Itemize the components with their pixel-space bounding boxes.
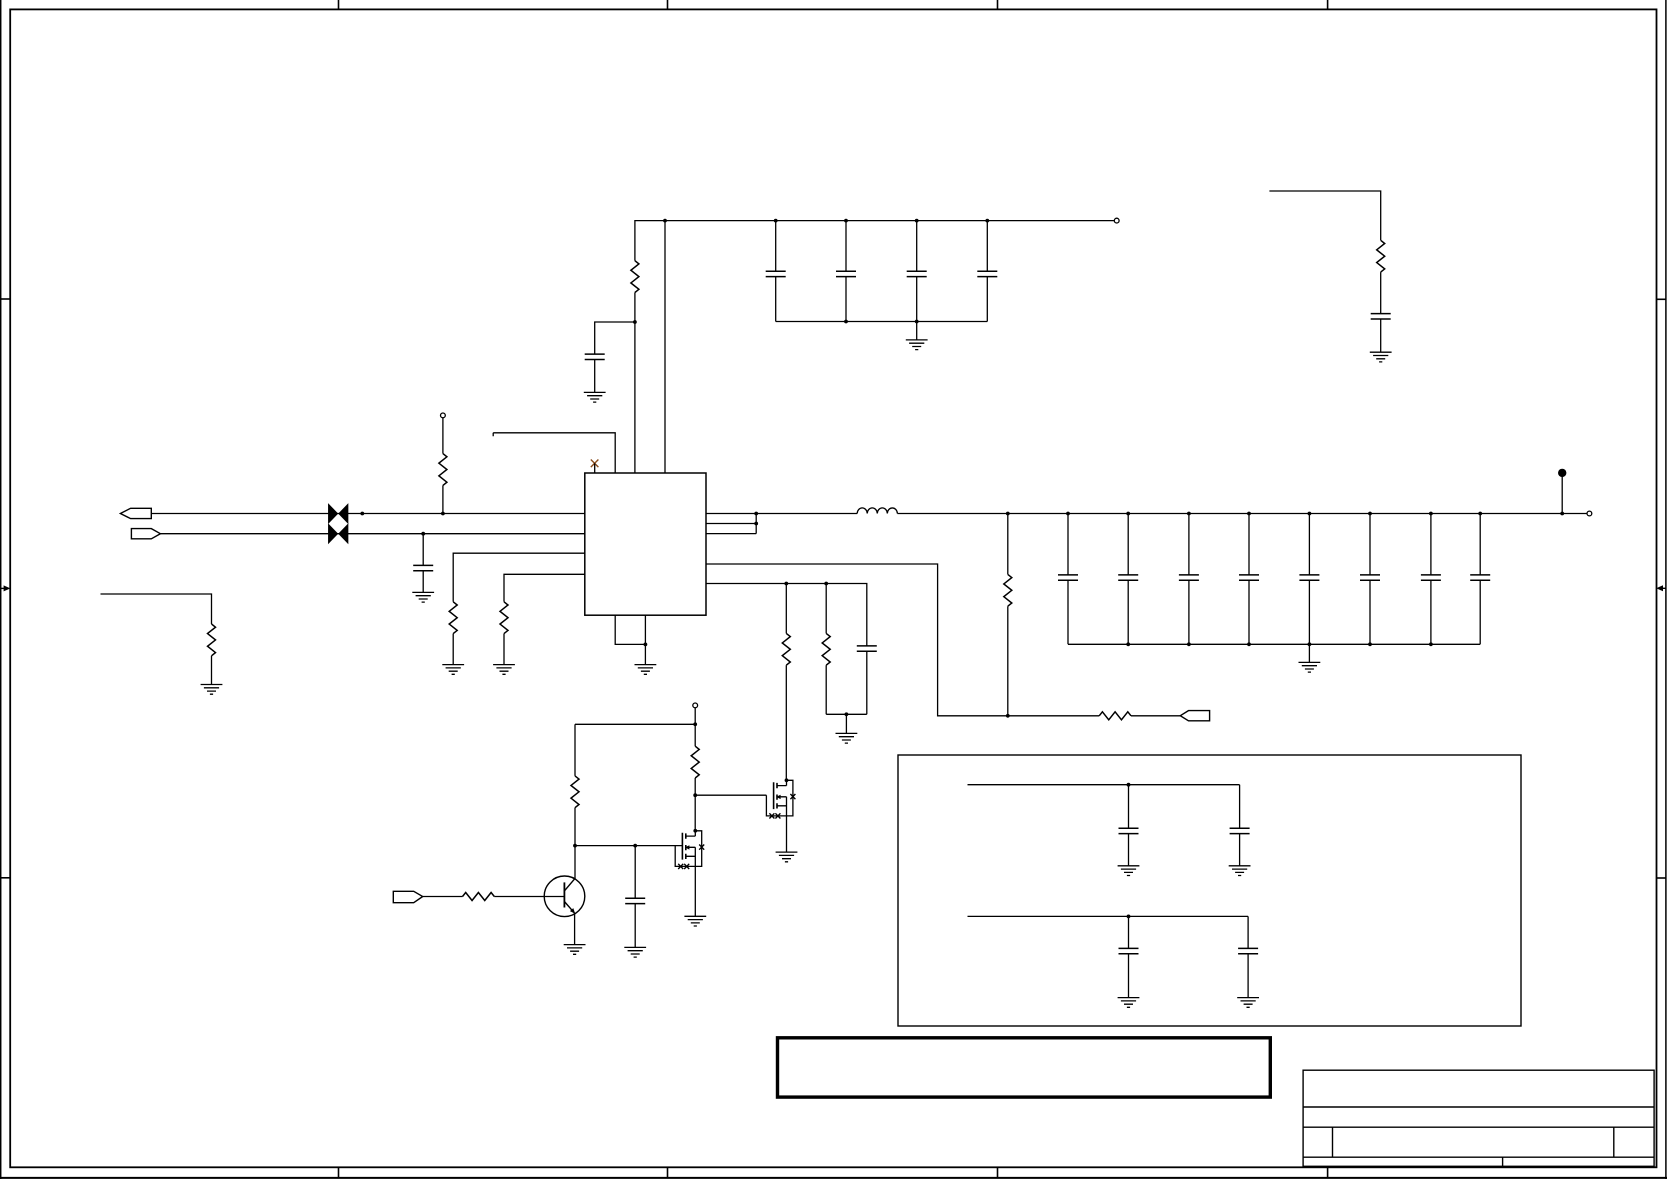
title block [1303, 1070, 1654, 1166]
capacitor C5 [585, 354, 605, 359]
wire M2 source to ground [786, 816, 788, 852]
capacitor C12 [1299, 575, 1319, 580]
wire R2 to C6 [1380, 272, 1382, 314]
ground under M2 [776, 852, 798, 862]
ground under C17 [624, 947, 646, 957]
wire C15 stub [1479, 514, 1481, 645]
wire C21 stub [1247, 916, 1249, 997]
capacitor C13 [1360, 575, 1380, 580]
zone tick right 1 [1657, 298, 1666, 300]
ground under C5 [584, 392, 606, 402]
zone tick top 1 [338, 0, 340, 9]
transistor M1 (NMOS) [675, 829, 704, 869]
centre arrow left edge [1, 585, 11, 591]
testpoint filled circle [1558, 469, 1566, 477]
wire ground stub [916, 322, 918, 340]
wire R5 to ground [503, 634, 505, 665]
wire resistor R1 bottom to junction and on to IC [634, 293, 636, 474]
wire C20 to ground [1128, 954, 1130, 998]
sheet outer border right edge [1665, 0, 1667, 1179]
transistor M2 (NMOS) [766, 778, 795, 818]
wire collector node to M1 gate [575, 845, 682, 847]
capacitor C17 [625, 898, 645, 903]
junction dot IC bottom [644, 643, 648, 647]
resistor R3 [439, 454, 447, 486]
inductor L1 [857, 508, 897, 514]
wire C14 stub [1430, 514, 1432, 645]
resistor R9 [822, 633, 830, 665]
wire flag to R12 [423, 896, 463, 898]
wire C12 stub [1308, 514, 1310, 645]
wire gate node to M2 gate [695, 794, 766, 796]
wire top right stub [1269, 191, 1380, 240]
wire IC pin y=574 [504, 574, 585, 602]
zone tick right 2 [1657, 877, 1666, 879]
wire to R8 [785, 584, 787, 634]
wire ground stub [845, 714, 847, 733]
resistor R5 [500, 602, 508, 634]
IC U1 body [585, 473, 706, 615]
capacitor C21 [1238, 948, 1258, 953]
resistor R13 [208, 624, 216, 656]
zone tick left 1 [0, 298, 10, 300]
resistor R12 [463, 893, 495, 901]
wire C3 stub [916, 221, 918, 322]
capacitor C11 [1239, 575, 1259, 580]
capacitor C14 [1421, 575, 1441, 580]
zone tick top 2 [667, 0, 669, 9]
junction dot bottom rail [845, 712, 849, 716]
ground under R9/C16 [836, 733, 858, 743]
ground under R4 [442, 665, 464, 675]
wire C10 stub [1188, 514, 1190, 645]
wire R4 to ground [452, 634, 454, 665]
wire M1 source to ground [694, 866, 696, 916]
capacitor C16 [857, 646, 877, 651]
ground under C7 [412, 592, 434, 602]
wire C11 stub [1248, 514, 1250, 645]
zone tick top 3 [997, 0, 999, 9]
wire R12 to base [494, 896, 564, 898]
wire C1 stub [775, 221, 777, 322]
terminal open circle top bus [1114, 218, 1119, 223]
ground under R13 [201, 685, 223, 695]
capacitor C4 [977, 271, 997, 276]
label block thick rectangle [778, 1038, 1271, 1097]
wire detail bottom net [968, 915, 1249, 917]
wire lower left net [101, 594, 212, 624]
capacitor C10 [1179, 575, 1199, 580]
capacitor C6 [1371, 314, 1391, 319]
junction dot detail top [1127, 783, 1131, 787]
connector flag feedback (points left) [1180, 711, 1209, 721]
EMI bowtie upper [328, 503, 348, 524]
junction dots on top bus [663, 219, 989, 223]
ground under capacitor bank [1299, 662, 1321, 672]
resistor R8 [782, 633, 790, 665]
wire gate node to M1 drain [694, 795, 696, 831]
wire junction branch to C5 [595, 322, 635, 354]
capacitor C15 [1470, 575, 1490, 580]
EMI bowtie lower [328, 523, 348, 544]
junction dots bank bottom rail [1126, 642, 1433, 646]
zone tick left 2 [0, 877, 10, 879]
wire C13 stub [1369, 514, 1371, 645]
wire C5 bottom to ground [594, 360, 596, 393]
wire C4 stub [986, 221, 988, 322]
zone tick bottom 2 [667, 1167, 669, 1178]
wire bank ground stub [1308, 644, 1310, 662]
wire C7 branch [422, 534, 424, 566]
terminal open circle above R3 [441, 413, 446, 418]
wire C2 stub [845, 221, 847, 322]
wire NC stub to IC top [594, 463, 596, 473]
ground under C18 [1118, 866, 1140, 876]
wire R13 to ground [211, 656, 213, 685]
junction dots tie point [754, 512, 758, 526]
connector flag input (points right) [393, 891, 422, 902]
wire R6 to feedback line [1007, 606, 1009, 716]
ground top rail [906, 340, 928, 350]
resistor R10 [571, 776, 579, 808]
wire terminal to R3 [442, 418, 444, 454]
zone tick bottom 1 [338, 1167, 340, 1178]
capacitor C3 [907, 271, 927, 276]
ground under C21 [1237, 998, 1259, 1008]
resistor R7 [1099, 712, 1131, 720]
wire C18 stub [1128, 785, 1130, 829]
wire R8 to M2 drain [785, 665, 787, 780]
wire main bus right section [897, 513, 1587, 515]
wire second line left of IC [160, 533, 584, 535]
wire R9/C16 bottom rail [826, 713, 867, 715]
wire R3 to bus [442, 485, 444, 513]
junction dot R3 branch [441, 512, 445, 516]
junction dot feedback line [1006, 714, 1010, 718]
wire C17 to ground [634, 904, 636, 948]
capacitor C2 [836, 271, 856, 276]
zone tick bottom 3 [997, 1167, 999, 1178]
wire IC bottom pins jog [615, 615, 645, 664]
wire R9 bottom [825, 665, 827, 714]
wire C7 to ground [422, 571, 424, 593]
wire IC pin y=583 [706, 584, 867, 646]
wire to R11 [694, 724, 696, 746]
resistor R4 [449, 602, 457, 634]
resistor R6 [1004, 574, 1012, 606]
centre arrow right edge [1656, 585, 1666, 591]
resistor R2 [1377, 240, 1385, 272]
wire detail top net [968, 784, 1240, 786]
junction dot supply rail [693, 722, 697, 726]
wire top supply bus [635, 221, 1114, 261]
capacitor C1 [766, 271, 786, 276]
wire C20 stub [1128, 916, 1130, 948]
wire C8 stub [1067, 514, 1069, 645]
junction dot C7 branch [421, 532, 425, 536]
capacitor C7 [413, 565, 433, 570]
junction dot collector node [573, 844, 577, 848]
wire terminal stub [694, 708, 696, 725]
capacitor C9 [1118, 575, 1138, 580]
wire R10 to collector [574, 808, 576, 879]
terminal open circle bus right end [1587, 511, 1592, 516]
resistor R11 [691, 746, 699, 778]
wire to R10 [574, 724, 576, 776]
wire C9 stub [1127, 514, 1129, 645]
wire main bus left of IC [151, 513, 585, 515]
wire IC pin y=564 feedback loop [706, 564, 1099, 716]
wire bus to inductor [756, 513, 857, 515]
wire emitter to ground [574, 913, 576, 945]
junction dot after bowtie [360, 512, 364, 516]
ground under C6 [1370, 352, 1392, 362]
zone tick bottom 4 [1327, 1167, 1329, 1178]
zone tick top 4 [1327, 0, 1329, 9]
wire capacitor bottom rail [776, 321, 988, 323]
ground under IC [635, 665, 657, 675]
junction dots on 583 line [784, 582, 828, 586]
wire R7 to flag [1131, 715, 1180, 717]
capacitor C18 [1119, 828, 1139, 833]
wire IC right pins to tie point [706, 514, 756, 534]
sheet outer border bottom edge [0, 1177, 1667, 1179]
wire testpoint stub [1561, 477, 1563, 514]
wire capacitor bank bottom rail [1068, 643, 1480, 645]
wire R11 to gate node [694, 778, 696, 795]
resistor R1 [631, 261, 639, 293]
junction dot R1/C5 branch [633, 320, 637, 324]
connector flag lower (points right) [131, 529, 160, 539]
wire bus to R6 [1007, 514, 1009, 575]
capacitor C8 [1058, 575, 1078, 580]
terminal open circle driver supply [693, 703, 698, 708]
capacitor C19 [1230, 828, 1250, 833]
decoupling detail box [898, 755, 1521, 1026]
wire C18 to ground [1128, 834, 1130, 866]
ground under M1 [684, 916, 706, 926]
wire C19 stub [1239, 785, 1241, 866]
junction dots on right bus [1006, 512, 1564, 516]
junction dot detail bottom [1127, 915, 1131, 919]
junction dot C17 branch [633, 844, 637, 848]
capacitor C20 [1119, 948, 1139, 953]
connector flag upper (points left) [120, 508, 151, 518]
wire to R9 [825, 584, 827, 634]
wire bus drop to IC pin (x=665) [664, 221, 666, 473]
wire C6 to ground [1380, 319, 1382, 352]
wire supply rail horizontal [575, 723, 695, 725]
sheet outer border left edge [0, 0, 2, 1179]
junction dot gate node M2 [693, 793, 697, 797]
ground under C20 [1118, 998, 1140, 1008]
ground under Q1 emitter [564, 945, 586, 955]
wire C17 branch [634, 846, 636, 899]
wire IC pin y=553 [453, 553, 585, 602]
ground under R5 [493, 665, 515, 675]
ground under C19 [1229, 866, 1251, 876]
wire C16 bottom [866, 651, 868, 714]
no-connect X marker [591, 460, 599, 468]
junction dots capacitor bottom rail [844, 320, 919, 324]
wire top pin jog (x=615) [493, 433, 615, 473]
transistor Q1 (NPN) [544, 876, 585, 917]
